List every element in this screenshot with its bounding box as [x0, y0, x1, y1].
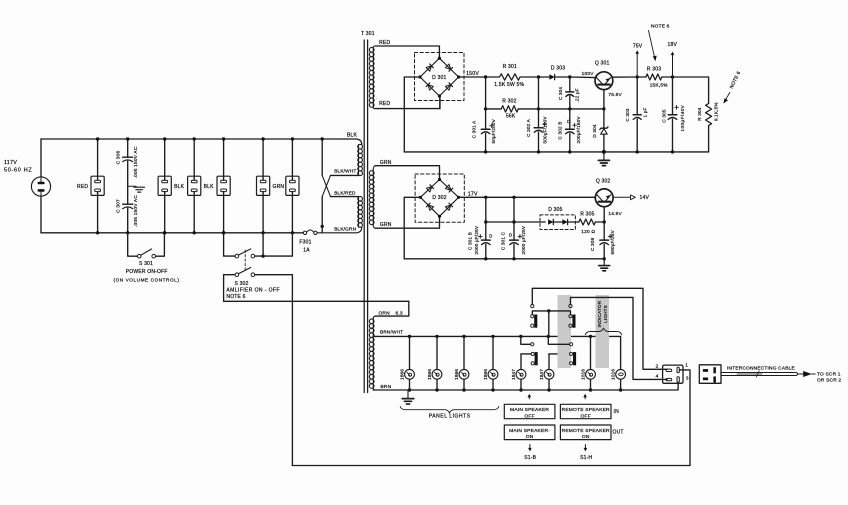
box REMOTE SPEAKER OFF — [560, 404, 611, 419]
svg-text:INDICATOR: INDICATOR — [597, 300, 602, 327]
ground 150V section — [598, 152, 609, 166]
outlet J5 GRN — [257, 137, 285, 234]
svg-text:PANEL LIGHTS: PANEL LIGHTS — [429, 414, 471, 420]
transformer primary winding 2 BLK/RED to BLK/GRN — [334, 196, 362, 231]
svg-text:.22 μF: .22 μF — [575, 88, 580, 102]
svg-text:GRN: GRN — [380, 160, 392, 166]
wire RED top tap to bridge — [375, 46, 439, 57]
wire 150V node — [459, 75, 500, 78]
speaker switch upper contacts — [531, 309, 576, 336]
output 75V arrow — [633, 43, 643, 78]
svg-text:1.5K 5W 5%: 1.5K 5W 5% — [494, 82, 524, 88]
interconnecting cable — [721, 371, 815, 378]
wire BLK/WHT lead — [331, 169, 359, 176]
indicator lights brace — [585, 328, 621, 335]
svg-text:500μF/150V: 500μF/150V — [542, 116, 547, 144]
svg-text:GRN: GRN — [273, 184, 285, 190]
svg-text:OFF: OFF — [524, 413, 534, 419]
svg-text:RED: RED — [77, 184, 88, 190]
svg-text:17V: 17V — [468, 191, 478, 197]
lamp 1866 #2 — [427, 336, 442, 390]
svg-text:200μF/160V: 200μF/160V — [576, 116, 581, 144]
svg-text:OR SCR 2: OR SCR 2 — [817, 378, 841, 384]
svg-text:S 301: S 301 — [139, 261, 153, 267]
svg-text:C 306: C 306 — [116, 150, 122, 164]
label BRN — [381, 384, 392, 390]
transformer secondary winding BRN — [369, 316, 375, 390]
capacitor C301B — [467, 197, 492, 260]
zener diode D304 — [592, 109, 608, 154]
svg-text:NOTE 6: NOTE 6 — [729, 70, 743, 89]
svg-text:D 303: D 303 — [551, 65, 565, 71]
svg-text:BLK: BLK — [347, 133, 358, 139]
wire pin 1 to bottom run — [679, 370, 690, 466]
wire RED bottom tap to bridge — [375, 97, 440, 109]
transformer primary winding 1 BLK to BLK/WHT — [358, 144, 363, 175]
svg-text:F301: F301 — [299, 240, 311, 246]
svg-text:ON: ON — [526, 434, 534, 440]
transformer secondary winding GRN — [369, 166, 375, 229]
arrow to S1-B — [528, 445, 532, 452]
svg-text:75V: 75V — [633, 43, 643, 49]
svg-text:REMOTE SPEAKER: REMOTE SPEAKER — [562, 407, 610, 413]
wire S302 lower pole to ORN tap — [224, 300, 409, 302]
svg-text:1A: 1A — [303, 247, 310, 253]
transformer T301 core — [364, 40, 367, 393]
wire long bottom run — [292, 465, 690, 467]
panel lights brace — [400, 407, 499, 414]
wire plug to bottom rail — [40, 196, 42, 233]
svg-text:BLK/WHT: BLK/WHT — [334, 169, 356, 174]
label OUT — [613, 429, 624, 435]
lamp 1016 #1 — [580, 336, 595, 390]
AC line input label 117V 50-60 HZ — [4, 160, 32, 174]
svg-text:C 301 B: C 301 B — [467, 232, 472, 250]
svg-text:3: 3 — [686, 375, 689, 381]
note 6 arrow top — [649, 24, 670, 62]
resistor R302 — [486, 99, 541, 120]
ground at panel lights — [402, 390, 414, 404]
speaker switch lower actuators — [521, 336, 573, 346]
wire common rail 17V section — [404, 258, 604, 260]
note 6 arrow right — [723, 70, 742, 103]
fuse F301 1A — [299, 230, 317, 253]
svg-text:6.3: 6.3 — [396, 311, 403, 317]
label S1-B — [524, 455, 536, 461]
svg-text:120 Ω: 120 Ω — [581, 229, 595, 235]
wire BLK/RED lead — [331, 190, 359, 196]
wire actuator B to pin 4 — [571, 297, 668, 379]
svg-text:15K,5%: 15K,5% — [650, 82, 669, 88]
svg-text:S 302: S 302 — [235, 281, 249, 287]
svg-text:1847: 1847 — [511, 369, 517, 380]
bridge rectifier D302 — [415, 174, 464, 222]
svg-text:INTERCONNECTING CABLE: INTERCONNECTING CABLE — [727, 366, 795, 372]
capacitor C302B — [558, 109, 581, 154]
svg-text:100V: 100V — [582, 71, 595, 77]
svg-text:2000 μF/25V: 2000 μF/25V — [521, 225, 526, 254]
switch S302 mechanical link — [244, 250, 246, 270]
svg-text:POWER ON-OFF: POWER ON-OFF — [126, 269, 168, 275]
svg-text:(ON VOLUME CONTROL): (ON VOLUME CONTROL) — [114, 277, 180, 282]
capacitor C306 — [116, 137, 140, 186]
box REMOTE SPEAKER ON — [560, 425, 611, 440]
pin label 2 — [656, 364, 659, 370]
svg-text:C 302 A: C 302 A — [526, 118, 531, 136]
label INDICATOR LIGHTS — [597, 300, 608, 327]
outlet J6 — [286, 137, 299, 234]
svg-text:1: 1 — [685, 362, 688, 368]
svg-text:Q 302: Q 302 — [596, 179, 611, 185]
svg-text:14V: 14V — [640, 195, 650, 201]
label S1-H — [580, 455, 592, 461]
svg-text:1016: 1016 — [580, 369, 586, 380]
svg-text:D: D — [567, 119, 570, 124]
capacitor C303 — [625, 77, 647, 154]
switch S302 upper pole — [222, 231, 292, 258]
svg-text:C 304: C 304 — [558, 87, 563, 101]
svg-text:NOTE 6: NOTE 6 — [226, 294, 245, 300]
wire BRN rail — [373, 382, 678, 391]
svg-text:1866: 1866 — [454, 369, 460, 380]
svg-text:50μF/200V: 50μF/200V — [491, 118, 496, 143]
label PANEL LIGHTS — [429, 414, 471, 420]
svg-text:R 304: R 304 — [697, 107, 702, 121]
svg-text:D 305: D 305 — [548, 207, 562, 213]
svg-text:1847: 1847 — [539, 369, 545, 380]
svg-text:LIGHTS: LIGHTS — [603, 305, 608, 323]
svg-text:C 308: C 308 — [590, 237, 595, 251]
connector plug on interconnecting cable — [699, 365, 721, 384]
svg-text:50-60 HZ: 50-60 HZ — [4, 168, 32, 174]
svg-text:.005 150V AC: .005 150V AC — [133, 195, 139, 227]
svg-text:1016: 1016 — [610, 369, 616, 380]
label INTERCONNECTING CABLE — [727, 366, 795, 372]
svg-text:9.1K,5%: 9.1K,5% — [713, 102, 718, 121]
speaker switch upper actuators — [531, 305, 572, 308]
svg-text:.005 150V AC: .005 150V AC — [133, 146, 139, 178]
svg-text:Q 301: Q 301 — [595, 61, 610, 67]
ground 17V section — [599, 259, 610, 271]
svg-text:AMLIFIER ON - OFF: AMLIFIER ON - OFF — [226, 287, 280, 293]
svg-text:C 307: C 307 — [116, 199, 122, 213]
label 17V — [468, 191, 478, 197]
transformer T301 label — [361, 31, 375, 37]
svg-text:14.6V: 14.6V — [608, 211, 622, 217]
svg-text:T 301: T 301 — [361, 31, 375, 37]
wire BRN/WHT rail — [373, 335, 620, 370]
pin label 1 — [685, 362, 688, 368]
svg-text:BLK/RED: BLK/RED — [334, 190, 356, 195]
svg-text:R 303: R 303 — [647, 67, 661, 73]
outlet J1 RED — [77, 137, 104, 234]
arrow to S1-H — [584, 445, 588, 452]
svg-text:100μF/40V: 100μF/40V — [680, 104, 685, 131]
wire ORN 6.3 tap — [375, 301, 408, 316]
wire D301 negative to common rail — [404, 77, 420, 152]
label RED bottom — [379, 101, 390, 107]
svg-text:150V: 150V — [466, 71, 479, 77]
svg-text:4: 4 — [656, 374, 659, 380]
transistor Q302 — [595, 179, 622, 223]
lamp 1866 #3 — [454, 336, 469, 390]
svg-text:ORN: ORN — [379, 311, 391, 317]
wire actuator A to pin 2 — [532, 288, 667, 369]
ground at C306/C307 midpoint — [128, 186, 145, 192]
wire BRN/WHT tap — [373, 330, 403, 337]
wire 17V node — [459, 196, 595, 199]
wire bottom AC rail — [41, 232, 303, 234]
capacitor C305 — [662, 77, 685, 154]
AC plug P301 — [31, 177, 50, 196]
outlet J4 — [217, 137, 230, 234]
transformer secondary winding RED — [369, 46, 375, 109]
svg-text:NOTE 6: NOTE 6 — [651, 24, 670, 30]
wire GRN bottom tap to bridge — [375, 217, 439, 228]
label IN — [614, 409, 620, 415]
switch S302 lower pole — [224, 268, 255, 302]
capacitor C304 — [558, 77, 580, 111]
svg-text:BLK: BLK — [174, 184, 185, 190]
svg-text:D: D — [509, 232, 512, 237]
svg-text:BLK: BLK — [204, 184, 215, 190]
box MAIN SPEAKER ON — [504, 425, 555, 440]
capacitor C302A — [526, 77, 547, 154]
resistor R305 — [579, 212, 606, 235]
wire top AC rail — [41, 133, 358, 139]
svg-text:75.6V: 75.6V — [608, 92, 622, 98]
svg-text:GRN: GRN — [380, 222, 392, 228]
bridge rectifier D301 — [415, 53, 465, 101]
wire fuse to transformer — [317, 227, 362, 233]
connector socket P302 — [663, 365, 683, 383]
svg-text:1866: 1866 — [399, 369, 405, 380]
capacitor C308 — [590, 222, 615, 260]
svg-text:1866: 1866 — [427, 369, 433, 380]
svg-text:OFF: OFF — [581, 413, 591, 419]
svg-text:ON: ON — [582, 434, 590, 440]
label 150V — [466, 71, 479, 77]
outlet J2 BLK — [158, 137, 185, 234]
svg-text:56K: 56K — [506, 114, 516, 120]
lamp 1866 #1 — [399, 336, 414, 390]
lamp 1847 #1 — [511, 354, 531, 390]
svg-text:REMOTE SPEAKER: REMOTE SPEAKER — [562, 428, 610, 434]
arrow to MAIN SPEAKER OFF — [528, 394, 532, 399]
wire R302 rail to Q301 base — [539, 108, 604, 110]
svg-text:R 302: R 302 — [502, 99, 516, 105]
svg-text:2: 2 — [656, 364, 659, 370]
output 14V — [614, 195, 650, 201]
svg-text:C 305: C 305 — [662, 109, 667, 123]
svg-text:C 301 A: C 301 A — [472, 120, 477, 138]
svg-text:D 302: D 302 — [432, 195, 446, 201]
svg-text:2000 μF/25V: 2000 μF/25V — [474, 225, 479, 254]
wire GRN top tap to bridge — [375, 166, 439, 179]
switch S302 label — [226, 281, 280, 300]
svg-text:S1-H: S1-H — [580, 455, 592, 461]
svg-text:S1-B: S1-B — [524, 455, 536, 461]
svg-text:TO SCR 1: TO SCR 1 — [817, 371, 841, 377]
resistor R303 — [637, 67, 674, 89]
label 100V — [582, 71, 595, 77]
label RED top — [379, 40, 390, 46]
wire top rail into transformer — [344, 139, 362, 145]
svg-text:RED: RED — [379, 40, 390, 46]
label TO SCR 1 OR SCR 2 — [817, 371, 841, 383]
wire plug to top rail — [40, 139, 42, 177]
slide switch band 2 — [596, 295, 610, 368]
svg-text:C 302 B: C 302 B — [558, 122, 563, 140]
lamp 1866 #4 — [483, 336, 498, 390]
svg-text:R 305: R 305 — [580, 212, 594, 218]
svg-text:BRN: BRN — [381, 384, 392, 390]
speaker switch lower contacts — [531, 352, 576, 365]
svg-text:D: D — [489, 233, 492, 238]
svg-text:C 303: C 303 — [625, 108, 630, 122]
capacitor C307 — [116, 186, 140, 234]
wire D301 bottom vertex — [439, 96, 441, 109]
svg-text:18V: 18V — [668, 42, 678, 48]
pin label 4 — [656, 374, 659, 380]
arrow to REMOTE SPEAKER OFF — [583, 394, 587, 399]
capacitor C301A — [472, 77, 497, 154]
transistor Q301 — [570, 61, 637, 111]
lamp 1016 #2 — [610, 369, 625, 390]
svg-text:1866: 1866 — [483, 369, 489, 380]
outlet J3 BLK — [188, 137, 215, 234]
output 18V arrow — [668, 42, 678, 77]
svg-text:MAIN SPEAKER: MAIN SPEAKER — [510, 407, 549, 413]
label GRN bottom — [380, 222, 392, 228]
svg-text:R 301: R 301 — [503, 64, 517, 70]
resistor R301 — [494, 64, 540, 88]
wire D302 negative to rail — [404, 197, 420, 258]
svg-text:D 301: D 301 — [432, 75, 446, 81]
capacitor C301C — [500, 197, 526, 260]
diode pair D305 — [486, 207, 579, 229]
svg-text:RED: RED — [379, 101, 390, 107]
wire common rail 150V section — [404, 151, 708, 153]
svg-text:117V: 117V — [4, 160, 17, 166]
svg-text:C 301 C: C 301 C — [500, 231, 505, 250]
slide switch band 1 — [558, 295, 572, 368]
svg-text:IN: IN — [614, 409, 620, 415]
svg-text:MAIN SPEAKER·: MAIN SPEAKER· — [509, 428, 550, 434]
box MAIN SPEAKER OFF — [504, 404, 555, 419]
svg-text:1 μF: 1 μF — [643, 107, 648, 117]
svg-text:BLK/GRN: BLK/GRN — [334, 226, 356, 231]
switch S301 POWER ON-OFF — [114, 231, 180, 282]
transformer primary crossover — [321, 137, 331, 233]
svg-text:680μF/25V: 680μF/25V — [610, 229, 615, 254]
diode D303 — [539, 65, 572, 79]
resistor R304 — [673, 77, 719, 152]
pin label 3 — [686, 375, 689, 381]
label GRN top — [380, 160, 392, 166]
svg-text:BRN/WHT: BRN/WHT — [380, 330, 403, 335]
svg-text:OUT: OUT — [613, 429, 624, 435]
lamp 1847 #2 — [539, 354, 570, 390]
svg-text:D 304: D 304 — [592, 124, 597, 138]
wire S302 lower pole to bottom run — [255, 275, 293, 466]
